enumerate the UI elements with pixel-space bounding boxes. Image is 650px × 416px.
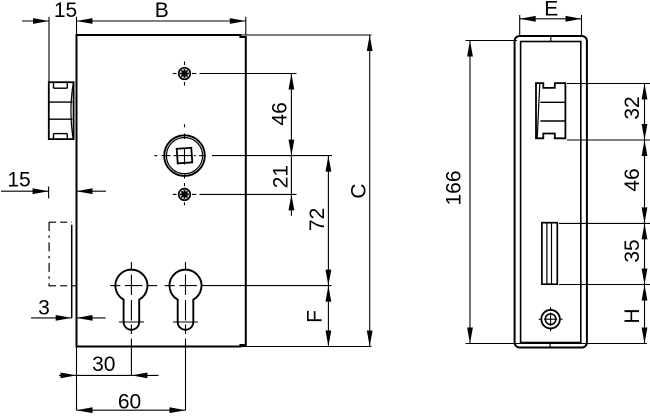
extension line top screw axis	[200, 73, 297, 75]
centerline top screw (horizontal)	[173, 73, 197, 75]
screw hole bottom (pozidriv)	[179, 189, 191, 201]
svg-text:32: 32	[621, 96, 644, 119]
svg-text:B: B	[155, 0, 169, 22]
lock case body (front view)	[77, 35, 246, 347]
extension line bottom screw axis	[200, 193, 297, 195]
extension line E right	[581, 15, 583, 36]
sliding bolt face (retracted, 3 mm proud)	[71, 225, 73, 318]
dimension 35 (bolt slot height)	[621, 223, 648, 284]
profile cylinder hole right	[169, 270, 201, 330]
centerline through screws and spindle (vertical)	[184, 62, 186, 206]
svg-text:46: 46	[268, 102, 291, 125]
extension line 166 top	[466, 40, 518, 42]
svg-text:3: 3	[38, 296, 50, 319]
svg-text:30: 30	[92, 353, 115, 376]
dimension 15 (latch protrusion, top)	[22, 0, 77, 24]
dimension E (faceplate width)	[520, 0, 582, 22]
dimension 32 (latch height)	[621, 84, 648, 141]
extension line cylinder left (bottom)	[130, 347, 132, 376]
extension line latch bottom	[567, 139, 650, 141]
dimension 15 (bolt throw, left)	[1, 168, 106, 194]
svg-text:72: 72	[306, 208, 329, 231]
dimension B (case width)	[77, 0, 246, 24]
extension line latch top	[567, 83, 650, 85]
extension line case right edge (top)	[245, 17, 247, 35]
svg-text:166: 166	[443, 170, 466, 205]
extension line bolt face extended	[48, 187, 50, 199]
extension line latch face (top)	[48, 17, 50, 82]
screw hole top (pozidriv)	[179, 68, 191, 80]
svg-text:60: 60	[118, 390, 141, 413]
extension line spindle axis	[212, 155, 332, 157]
faceplate centre joint top	[550, 36, 552, 42]
svg-text:21: 21	[269, 165, 292, 188]
latch bolt (front view, side profile)	[49, 82, 74, 139]
dimension 60 (second cylinder backset)	[77, 390, 186, 413]
sliding bolt slot (side view)	[542, 223, 557, 285]
dimension F (cylinder to case bottom)	[303, 286, 331, 347]
svg-text:E: E	[544, 0, 558, 21]
centerline bottom screw (horizontal)	[173, 193, 197, 195]
dimension C (case height)	[347, 35, 372, 347]
svg-text:H: H	[621, 308, 644, 323]
dimension 30 (cylinder backset)	[59, 353, 159, 379]
centerline spindle (horizontal)	[154, 155, 205, 157]
extension line bolt slot top	[559, 222, 650, 224]
extension line case top to C	[240, 34, 371, 36]
dimension H (bolt slot to bottom)	[621, 285, 648, 344]
extension line cylinder right (bottom)	[185, 347, 187, 411]
latch bolt (side view)	[536, 83, 565, 138]
svg-text:35: 35	[621, 239, 644, 262]
dimension 3 (bolt proud)	[31, 296, 106, 321]
faceplate centre joint bottom	[549, 343, 551, 348]
fixing screw hole (side view)	[539, 307, 563, 331]
dimension 72 (spindle to cylinder)	[306, 156, 331, 286]
dimension 46 (latch to bolt slot)	[621, 140, 648, 223]
dimension 166 (faceplate height)	[443, 41, 473, 344]
dimension 21 (spindle to screw)	[269, 156, 294, 216]
profile cylinder hole left	[115, 270, 147, 330]
svg-text:15: 15	[54, 0, 77, 22]
spindle follower hub with square hole	[164, 135, 205, 176]
lock case behind faceplate	[521, 42, 581, 343]
svg-text:F: F	[303, 310, 326, 323]
centerline cylinder hole right (vertical)	[185, 262, 187, 347]
centerline cylinder holes (horizontal)	[110, 285, 197, 287]
extension line bolt slot bottom	[559, 284, 650, 286]
faceplate outline (side view)	[515, 36, 587, 348]
svg-text:46: 46	[621, 168, 644, 191]
extension line cylinder axis	[202, 285, 332, 287]
dimension 46 (screw to spindle)	[268, 74, 294, 156]
extension line case bottom to C	[240, 346, 371, 348]
extension line case left edge (bottom)	[76, 347, 78, 411]
svg-text:C: C	[347, 183, 370, 198]
svg-text:15: 15	[7, 168, 30, 191]
extension line case left edge (top)	[76, 17, 78, 35]
centerline cylinder hole left (vertical)	[130, 262, 132, 347]
extension line E left	[519, 15, 521, 36]
extension line bottom (166 and H)	[466, 343, 647, 345]
sliding bolt extended position (dashed)	[49, 222, 76, 287]
centerline cylinder stems (horizontal ticks)	[119, 321, 198, 323]
